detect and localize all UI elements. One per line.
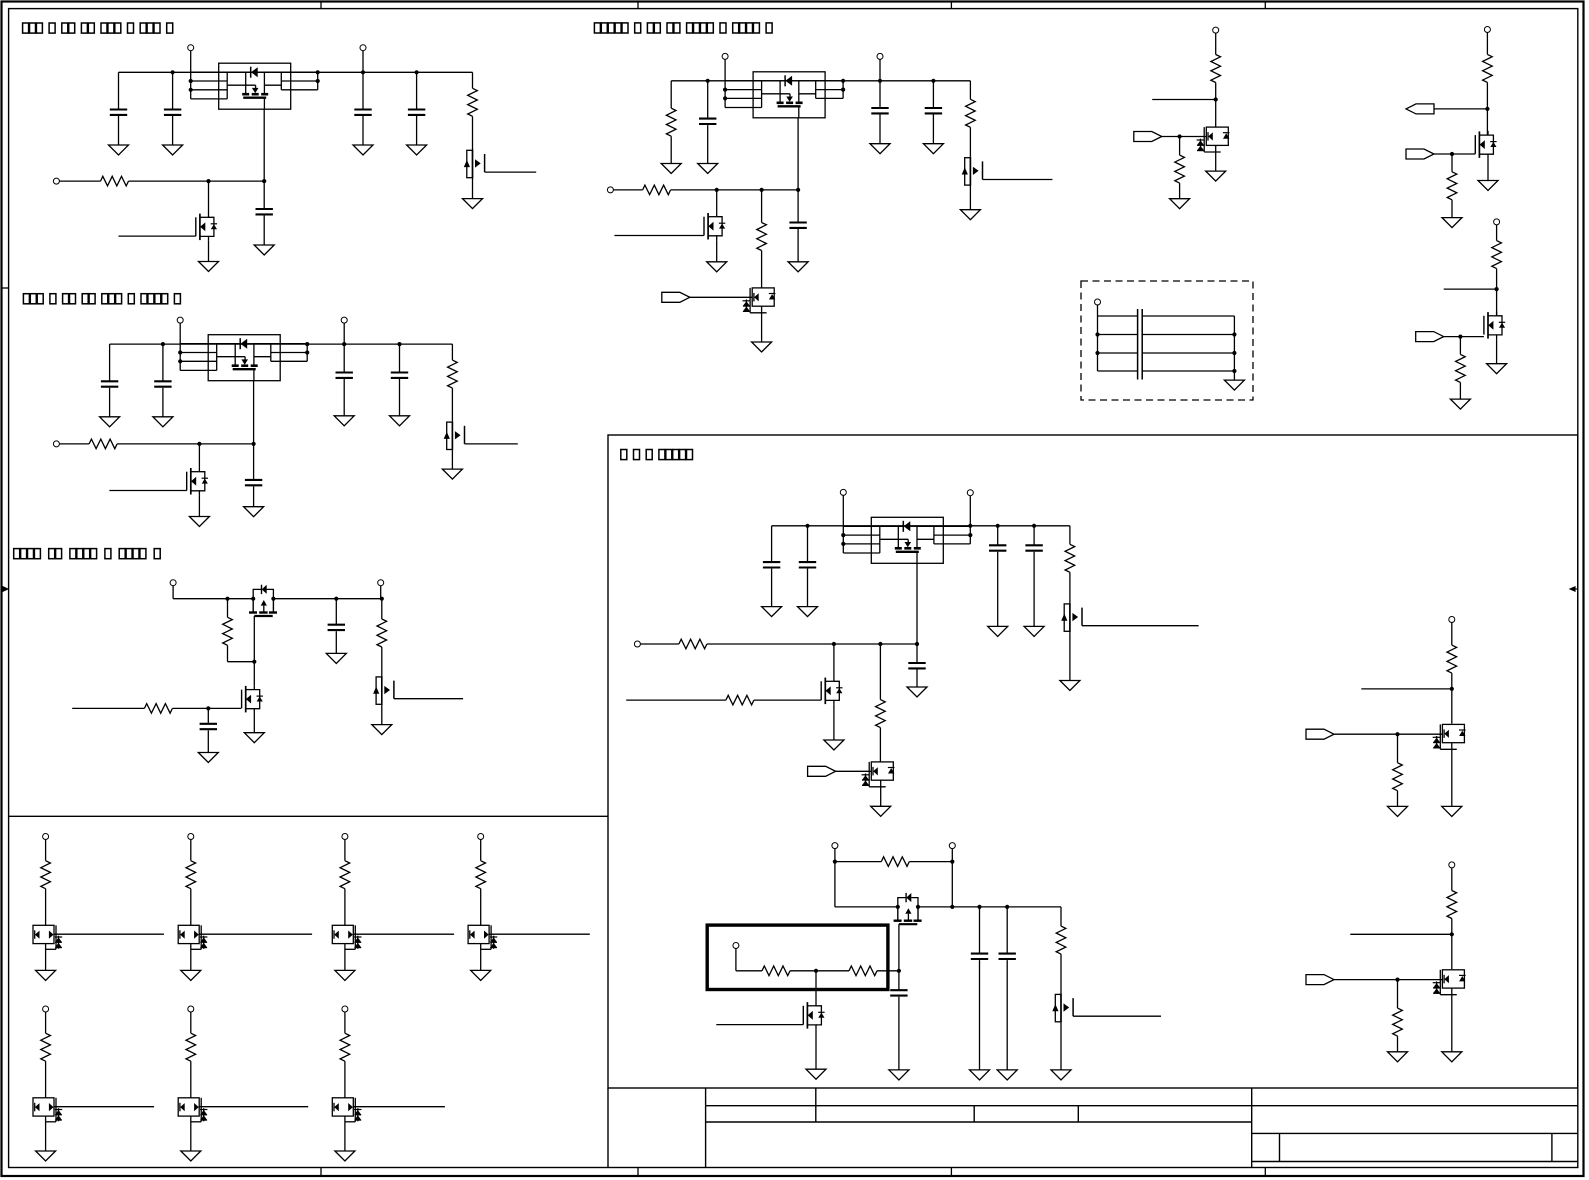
wire: [59, 443, 89, 445]
port P11A: [1449, 617, 1455, 623]
wire: [707, 125, 709, 163]
port P4A: [722, 53, 728, 59]
junction: [814, 969, 818, 973]
junction: [206, 706, 210, 710]
wire: [1397, 1036, 1399, 1052]
wire: [1487, 159, 1489, 181]
wire: [1215, 33, 1217, 54]
wire: [343, 344, 345, 372]
junction: [252, 442, 256, 446]
wire: [877, 970, 899, 972]
port P2B: [341, 317, 347, 323]
resistor R4: [89, 439, 117, 449]
wire: [771, 526, 773, 562]
wire: [1060, 1023, 1062, 1070]
junction: [950, 860, 954, 864]
wire: [253, 444, 255, 480]
wire: [480, 889, 482, 926]
junction: [1232, 332, 1236, 336]
port grid: [342, 1006, 348, 1012]
wire: [207, 708, 209, 723]
wire: [916, 644, 918, 663]
ground: [189, 517, 209, 527]
junction: [1095, 332, 1099, 336]
ground: [163, 145, 183, 155]
wire: [1334, 979, 1442, 981]
wire: [807, 569, 809, 607]
ground: [1487, 364, 1507, 374]
port P2C: [53, 441, 59, 447]
wire: [451, 450, 453, 469]
ground: [326, 653, 346, 663]
junction: [1458, 335, 1462, 339]
ground: [353, 145, 373, 155]
wire: [45, 840, 47, 861]
wire stub: [1350, 933, 1452, 935]
resistor R2: [101, 176, 129, 186]
ground: [244, 507, 264, 517]
transistor Q3: [444, 421, 465, 450]
wire: [879, 81, 881, 108]
ground: [1388, 806, 1408, 816]
ground: [109, 145, 129, 155]
port P1A: [188, 45, 194, 51]
wire: [879, 728, 881, 762]
transistor Q21: [1433, 970, 1466, 995]
junction: [189, 79, 193, 83]
resistor R18: [1065, 544, 1075, 572]
wire: [790, 970, 849, 972]
junction: [316, 70, 320, 74]
border tick: [2, 287, 9, 289]
junction: [342, 342, 346, 346]
wire: [842, 495, 844, 525]
transistor Q2: [196, 213, 217, 241]
junction: [171, 70, 175, 74]
wire: [736, 970, 762, 972]
wire: [381, 705, 383, 725]
wire gate: [72, 707, 144, 709]
connector tag: [662, 292, 690, 302]
junction: [723, 88, 727, 92]
wire: [416, 72, 418, 109]
wire: [979, 907, 981, 954]
capacitor C5: [256, 209, 273, 214]
wire gate: [1444, 336, 1484, 338]
junction: [1232, 369, 1236, 373]
title block divider: [815, 1088, 817, 1122]
title block row line: [706, 1121, 1252, 1123]
wire: [1451, 673, 1453, 724]
wire: [172, 586, 174, 599]
wire: [381, 599, 383, 619]
wire: [198, 495, 200, 516]
wire gate: [172, 707, 241, 709]
wire gate: [1073, 1015, 1161, 1017]
wire: [1060, 907, 1062, 926]
border tick: [637, 2, 639, 9]
wire: [1006, 960, 1008, 1070]
port grid: [43, 834, 49, 840]
junction: [968, 524, 972, 528]
transistor Q12: [1475, 131, 1496, 159]
connector tag: [1134, 132, 1162, 142]
capacitor C12: [328, 625, 345, 630]
junction: [206, 179, 210, 183]
junction: [833, 860, 837, 864]
capacitor C17: [763, 562, 780, 567]
wire: [263, 181, 265, 209]
wire: [969, 496, 971, 526]
transistor Q8: [962, 157, 983, 186]
port P11B: [1449, 862, 1455, 868]
wire: [1179, 137, 1181, 156]
wire gate: [394, 698, 463, 700]
wire: [172, 116, 174, 145]
transistor Q36: [332, 1098, 361, 1122]
junction: [361, 70, 365, 74]
wire: [707, 81, 709, 119]
ground: [806, 1069, 826, 1079]
resistor Rg: [476, 861, 486, 889]
resistor R28: [1447, 891, 1457, 919]
wire: [190, 889, 192, 926]
wire: [670, 136, 672, 163]
load switch U1: [191, 63, 318, 109]
ground: [1478, 181, 1498, 191]
resistor R8: [666, 108, 676, 136]
port P3B: [378, 580, 384, 586]
junction: [316, 79, 320, 83]
port P6: [1484, 27, 1490, 33]
wire: [716, 190, 718, 213]
transistor Q15: [821, 677, 842, 705]
junction: [161, 342, 165, 346]
ground: [471, 970, 491, 980]
wire: [45, 944, 47, 971]
wire gate: [1082, 625, 1199, 627]
resistor R1: [468, 88, 478, 116]
ground: [100, 417, 120, 427]
wire gate: [109, 490, 186, 492]
transistor Q10: [743, 288, 776, 313]
title block left edge: [705, 1088, 707, 1168]
wire: [1179, 183, 1181, 199]
connector tag: [1406, 104, 1434, 114]
wire gate: [614, 235, 704, 237]
wire: [45, 1012, 47, 1033]
wire: [969, 81, 971, 100]
wire: [1486, 33, 1488, 55]
transistor Q4: [187, 467, 208, 495]
wire: [253, 662, 255, 686]
junction: [968, 533, 972, 537]
ground: [907, 687, 927, 697]
port P10B: [949, 843, 955, 849]
port P10A: [832, 843, 838, 849]
ground: [198, 753, 218, 763]
wire: [207, 730, 209, 752]
junction: [841, 88, 845, 92]
junction: [878, 79, 882, 83]
ground: [1442, 218, 1462, 228]
ground: [1450, 399, 1470, 409]
wire: [879, 59, 881, 80]
wire: [613, 189, 642, 191]
resistor R6: [144, 704, 172, 714]
ground: [254, 245, 274, 255]
port P9B: [967, 490, 973, 496]
capacitor plates: [1137, 309, 1139, 380]
wire: [1142, 352, 1234, 354]
wire: [716, 240, 718, 262]
resistor R12: [1211, 55, 1221, 83]
wire: [227, 645, 229, 661]
wire: [1451, 154, 1453, 172]
junction: [896, 905, 900, 909]
wire: [227, 599, 229, 618]
wire: [761, 190, 763, 223]
border tick: [320, 2, 322, 9]
transistor Q32: [332, 925, 361, 949]
wire bus: [1097, 316, 1099, 371]
wire: [362, 72, 364, 109]
ground: [960, 210, 980, 220]
wire: [1215, 83, 1217, 128]
capacitor bank dashed box: [1081, 281, 1253, 400]
wire: [1397, 791, 1399, 807]
capacitor C1: [110, 110, 127, 115]
wire: [129, 180, 265, 182]
wire: [879, 644, 881, 700]
ground: [824, 740, 844, 750]
port grid: [188, 1006, 194, 1012]
resistor R29: [1393, 1008, 1403, 1036]
ground: [244, 733, 264, 743]
transistor Q30: [33, 925, 62, 949]
capacitor C14: [871, 108, 888, 113]
wire: [451, 388, 453, 421]
junction: [415, 70, 419, 74]
ground: [390, 416, 410, 426]
wire: [59, 180, 100, 182]
capacitor C22: [890, 990, 907, 995]
resistor R10: [643, 185, 671, 195]
wire: [162, 344, 164, 381]
wire: [380, 586, 382, 599]
capacitor C11: [200, 724, 217, 729]
wire: [735, 949, 737, 971]
junction: [305, 342, 309, 346]
junction: [841, 79, 845, 83]
capacitor C8: [336, 373, 353, 378]
wire stub: [1361, 688, 1452, 690]
wire: [707, 643, 917, 645]
resistor R11: [757, 223, 767, 251]
resistor R16: [1492, 241, 1502, 269]
title block row line: [706, 1105, 1578, 1107]
ground: [870, 144, 890, 154]
junction: [1450, 932, 1454, 936]
connector tag: [1416, 332, 1444, 342]
wire: [1142, 334, 1234, 336]
junction: [931, 79, 935, 83]
border tick: [1264, 1168, 1266, 1177]
wire: [416, 116, 418, 145]
resistor Rg: [340, 1033, 350, 1061]
junction: [397, 342, 401, 346]
wire: [1451, 743, 1453, 807]
junction: [832, 642, 836, 646]
junction: [251, 597, 255, 601]
ground: [335, 970, 355, 980]
ground: [36, 1151, 56, 1161]
junction: [1214, 97, 1218, 101]
wire: [671, 189, 799, 191]
junction: [723, 96, 727, 100]
ground: [153, 417, 173, 427]
wire: [1162, 136, 1207, 138]
wire: [54, 1106, 154, 1108]
wire: [1006, 907, 1008, 954]
wire gate: [983, 179, 1053, 181]
junction: [796, 188, 800, 192]
ground: [762, 607, 782, 617]
title block divider: [973, 1106, 975, 1122]
transistor Q35: [178, 1098, 207, 1122]
wire: [1098, 352, 1138, 354]
connector tag: [1306, 975, 1334, 985]
wire: [190, 840, 192, 861]
capacitor plates: [1141, 309, 1143, 380]
transistor Q6: [242, 685, 263, 713]
logic section box top: [9, 815, 608, 817]
section 4 title: [594, 23, 772, 33]
junction: [760, 188, 764, 192]
junction: [916, 905, 920, 909]
capacitor C9: [391, 373, 408, 378]
resistor R20: [726, 695, 754, 705]
junction: [1395, 978, 1399, 982]
wire: [45, 1116, 47, 1151]
ground: [798, 607, 818, 617]
wire: [208, 241, 210, 262]
wire: [997, 552, 999, 627]
section 2 title: [23, 294, 180, 304]
wire: [1496, 339, 1498, 364]
wire rail: [918, 906, 1061, 908]
wire: [879, 115, 881, 144]
transistor Q17: [894, 893, 922, 924]
wire gate: [716, 1024, 803, 1026]
wire: [880, 780, 882, 806]
wire: [815, 1029, 817, 1069]
wire gate: [626, 699, 726, 701]
capacitor C23: [971, 954, 988, 959]
wire stub: [1444, 288, 1497, 290]
resistor R21: [876, 700, 886, 728]
wire: [797, 229, 799, 262]
resistor Rg: [186, 1033, 196, 1061]
wire rail S4: [671, 80, 970, 82]
wire: [489, 933, 590, 935]
ground: [661, 164, 681, 174]
resistor R25: [1056, 926, 1066, 954]
wire: [835, 861, 881, 863]
junction: [841, 542, 845, 546]
wire: [45, 889, 47, 926]
junction: [189, 88, 193, 92]
transistor Q9: [704, 212, 725, 240]
wire gate: [119, 235, 196, 237]
capacitor C15: [925, 108, 942, 113]
junction: [897, 969, 901, 973]
ground: [181, 1151, 201, 1161]
port grid: [342, 834, 348, 840]
wire: [109, 344, 111, 381]
port P1C: [53, 178, 59, 184]
transistor Q11: [1197, 127, 1230, 152]
wire: [118, 116, 120, 145]
wire: [172, 72, 174, 109]
ground: [698, 164, 718, 174]
wire: [916, 670, 918, 688]
wire: [228, 661, 255, 663]
wire: [353, 933, 454, 935]
wire: [1451, 868, 1453, 891]
junction: [878, 642, 882, 646]
connector tag: [808, 766, 836, 776]
junction: [1232, 351, 1236, 355]
wire: [54, 933, 164, 935]
capacitor C16: [789, 223, 806, 228]
wire: [263, 216, 265, 246]
capacitor C13: [699, 119, 716, 124]
ground: [1051, 1070, 1071, 1080]
border tick: [637, 1168, 639, 1177]
wire: [199, 933, 312, 935]
junction: [305, 350, 309, 354]
resistor Rg: [340, 861, 350, 889]
section 3 title: [14, 549, 161, 559]
junction: [715, 188, 719, 192]
port P7: [1494, 219, 1500, 225]
resistor R5: [223, 617, 233, 645]
ground: [1442, 1052, 1462, 1062]
border tick: [950, 2, 952, 9]
wire: [399, 344, 401, 372]
wire: [1334, 733, 1442, 735]
wire gate: [465, 443, 518, 445]
transistor Q16: [862, 762, 895, 787]
wire: [836, 770, 872, 772]
port P4C: [607, 187, 613, 193]
wire: [640, 643, 679, 645]
ground: [372, 725, 392, 735]
wire: [1496, 269, 1498, 316]
wire: [1397, 734, 1399, 763]
capacitor C19: [989, 545, 1006, 550]
wire: [1069, 572, 1071, 603]
junction: [977, 905, 981, 909]
junction: [805, 524, 809, 528]
junction: [915, 642, 919, 646]
load switch U4: [843, 517, 970, 563]
ground: [1170, 199, 1190, 209]
wire: [969, 186, 971, 210]
transistor Q13: [1484, 312, 1505, 340]
ground: [997, 1070, 1017, 1080]
